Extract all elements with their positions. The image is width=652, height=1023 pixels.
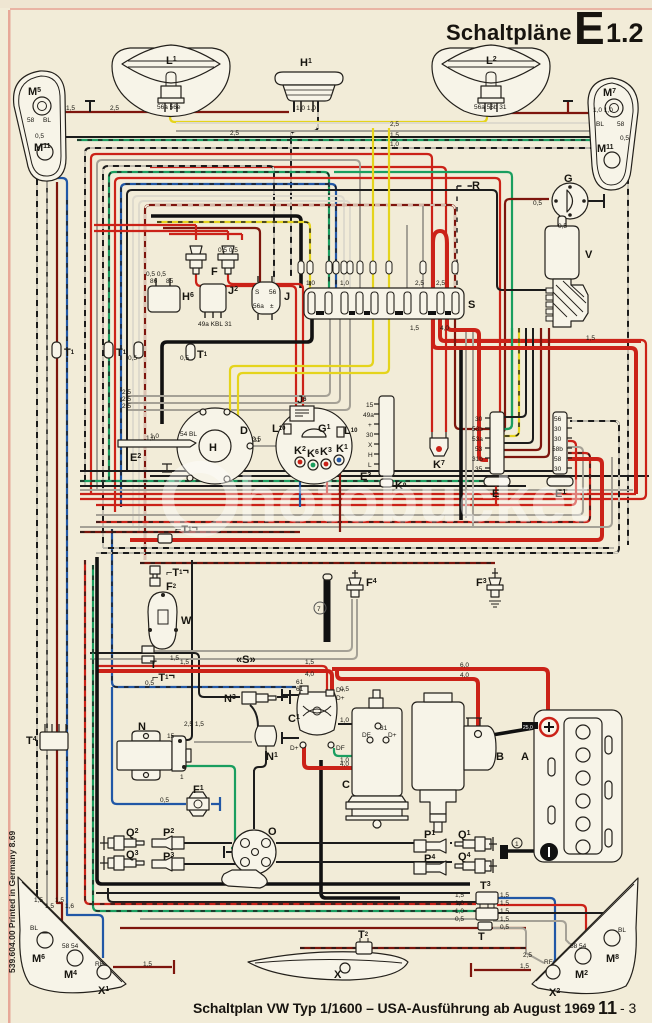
maroon to relay J	[163, 228, 260, 282]
band b14 black-dash U-turn to E1	[96, 421, 619, 553]
right tail grey 2	[493, 928, 544, 963]
svg-text:1,5: 1,5	[34, 897, 43, 904]
engine border thick black	[97, 557, 470, 884]
S-band black to N3	[90, 653, 240, 697]
svg-text:RF: RF	[544, 959, 553, 966]
yellow feeds to fusebox from lamp run	[373, 128, 389, 288]
starter B	[412, 693, 504, 832]
nest wire 4 black-dash	[103, 166, 274, 548]
band blue-dash	[112, 529, 296, 687]
left tail maroon ground	[113, 960, 174, 974]
grey feeds to fusebox	[407, 206, 423, 288]
svg-text:0,5: 0,5	[35, 133, 44, 140]
ignition maroon 2	[504, 328, 549, 457]
inline connector T1 with F2	[150, 565, 189, 593]
svg-text:0,5: 0,5	[500, 924, 509, 931]
svg-text:58 54: 58 54	[62, 943, 79, 950]
antenna	[314, 574, 332, 642]
svg-text:1,5: 1,5	[143, 961, 152, 968]
svg-text:W: W	[181, 615, 192, 627]
svg-text:0,5 0,5: 0,5 0,5	[218, 247, 238, 254]
svg-text:2,5: 2,5	[122, 389, 131, 396]
svg-text:±: ±	[270, 303, 274, 310]
svg-text:2,5: 2,5	[436, 280, 445, 287]
wire: green-dash parking run to M11 right	[77, 140, 601, 150]
ignition yellow-dash	[504, 328, 519, 436]
nest wire 7 blue-dash	[121, 184, 336, 507]
starter red vertical	[476, 684, 480, 730]
bottom bundle green-dash	[93, 565, 476, 911]
svg-text:15: 15	[366, 402, 374, 409]
right tail grey 1	[493, 921, 570, 944]
red wires to F senders	[94, 225, 242, 234]
svg-text:1,5: 1,5	[170, 655, 179, 662]
C1 to C black	[338, 723, 374, 725]
svg-text:1,0: 1,0	[146, 435, 155, 442]
svg-text:B: B	[496, 751, 504, 763]
svg-text:T: T	[478, 931, 485, 943]
svg-text:1,0: 1,0	[340, 280, 349, 287]
band b7 red to right elbow	[80, 340, 646, 499]
condenser N1	[255, 726, 278, 763]
wire: white lamp run	[176, 122, 591, 124]
plug leads left	[184, 843, 420, 864]
left lamp vertical a1 black	[37, 178, 42, 931]
bottom bundle maroon	[120, 927, 526, 929]
svg-text:6,0: 6,0	[460, 662, 469, 669]
svg-text:2,5: 2,5	[230, 130, 239, 137]
band b5 grey	[80, 489, 633, 491]
distributor O	[222, 826, 277, 888]
svg-text:1,5: 1,5	[305, 659, 314, 666]
svg-text:0,5: 0,5	[533, 200, 542, 207]
svg-text:1,5: 1,5	[66, 105, 75, 112]
wire: grey lamp run	[176, 130, 596, 132]
band b4 black	[80, 485, 526, 487]
radio option R dashed	[457, 180, 480, 300]
band b12 red thick U-turn to E1	[130, 459, 602, 540]
S-band red pair to C1	[96, 666, 327, 699]
red hairpin at fuse 9	[433, 231, 447, 288]
svg-text:D+: D+	[290, 745, 299, 752]
connector T below W	[142, 646, 157, 671]
svg-text:T: T	[150, 659, 157, 671]
svg-text:11: 11	[598, 998, 617, 1018]
front lamp M5/M11 left	[14, 71, 66, 181]
svg-text:F: F	[211, 266, 218, 278]
relay J	[252, 276, 290, 320]
svg-text:S: S	[255, 289, 260, 296]
svg-text:+: +	[368, 422, 372, 429]
svg-text:7: 7	[317, 606, 321, 613]
maroon dash under X2	[300, 947, 526, 949]
svg-text:2,5: 2,5	[110, 105, 119, 112]
svg-text:1,0 1,0: 1,0 1,0	[296, 105, 316, 112]
svg-text:1.2: 1.2	[606, 18, 644, 48]
plug connectors P2 P3	[152, 827, 184, 871]
washer bottle V	[545, 216, 593, 279]
band b9 grey U-turn to E1	[96, 447, 583, 515]
maroon G sender wire	[504, 199, 549, 431]
N3 ground	[277, 690, 290, 704]
band b6 red	[80, 493, 636, 495]
plug leads right	[300, 843, 452, 862]
svg-text:1,0: 1,0	[455, 908, 464, 915]
svg-text:1,0: 1,0	[455, 900, 464, 907]
svg-text:0,5: 0,5	[620, 135, 629, 142]
wiper switch E3	[360, 396, 407, 492]
connector T4	[26, 724, 68, 750]
svg-text:61: 61	[296, 679, 304, 686]
svg-text:86: 86	[150, 278, 158, 285]
ignition black 2	[504, 328, 533, 443]
svg-text:4,0: 4,0	[440, 325, 449, 332]
svg-text:BL: BL	[618, 927, 626, 934]
svg-text:1,5: 1,5	[586, 335, 595, 342]
C1 black ground bars	[282, 689, 299, 744]
svg-text:49a: 49a	[363, 412, 374, 419]
svg-text:H: H	[368, 452, 373, 459]
wiper motor under V	[546, 279, 588, 327]
nest wire 10 white2	[139, 201, 350, 532]
svg-text:15: 15	[167, 733, 175, 740]
svg-text:BL: BL	[596, 121, 604, 128]
generator C	[342, 690, 408, 828]
svg-text:0,5: 0,5	[340, 686, 349, 693]
svg-text:DF: DF	[336, 745, 345, 752]
maroon run to M7	[497, 101, 590, 113]
svg-text:1,6: 1,6	[65, 903, 74, 910]
relay J2	[198, 284, 238, 328]
left lamp vertical a3 maroon	[57, 182, 75, 950]
left lamp vertical a4 blue	[50, 150, 103, 958]
red pair from F to indicator lamps	[196, 274, 296, 456]
fuse yellow pair down	[230, 318, 389, 424]
svg-text:1: 1	[515, 841, 519, 848]
left lamp vertical a2 grey	[47, 180, 70, 948]
svg-text:D: D	[240, 425, 248, 437]
svg-text:1,0: 1,0	[306, 280, 315, 287]
fuel sender F4	[347, 570, 377, 597]
svg-text:RF: RF	[95, 961, 104, 968]
connector T3	[476, 880, 498, 943]
svg-text:G: G	[564, 173, 573, 185]
svg-text:2,5: 2,5	[122, 396, 131, 403]
svg-text:E: E	[574, 2, 605, 54]
svg-text:2,5 1,5: 2,5 1,5	[184, 721, 204, 728]
wire: headlamp feed maroon top	[62, 111, 289, 113]
svg-text:2,5: 2,5	[122, 403, 131, 410]
right tail red	[497, 905, 586, 950]
svg-text:58b: 58b	[552, 446, 563, 453]
svg-text:53a: 53a	[472, 436, 483, 443]
svg-text:1,5: 1,5	[500, 916, 509, 923]
svg-text:1,5: 1,5	[500, 908, 509, 915]
svg-text:58 54: 58 54	[570, 943, 587, 950]
extra verticals below fusebox right	[465, 330, 467, 518]
band b2 black	[150, 475, 649, 477]
nest wire 12 black thick	[151, 216, 301, 288]
bottom bundle black 1	[96, 892, 470, 894]
spark plugs Q1 Q4 right	[455, 829, 497, 873]
turn signal switch E	[472, 412, 510, 500]
svg-text:58: 58	[554, 456, 562, 463]
svg-text:BL: BL	[30, 925, 38, 932]
svg-text:53b: 53b	[472, 426, 483, 433]
svg-text:0,5: 0,5	[160, 797, 169, 804]
svg-text:4,0: 4,0	[460, 672, 469, 679]
svg-text:BL: BL	[43, 117, 51, 124]
svg-text:1,5: 1,5	[500, 900, 509, 907]
bottom bundle red-dash	[85, 560, 476, 904]
svg-text:1,0: 1,0	[390, 141, 399, 148]
oil sender N3	[224, 692, 276, 705]
svg-text:54 BL: 54 BL	[180, 431, 197, 438]
svg-text:1,5: 1,5	[455, 892, 464, 899]
svg-text:hotobucket: hotobucket	[238, 463, 588, 536]
svg-text:R: R	[472, 180, 480, 192]
plug connectors P1 P4 right	[414, 829, 446, 875]
svg-text:53: 53	[475, 446, 483, 453]
svg-text:0,5: 0,5	[180, 355, 189, 362]
svg-text:C: C	[342, 779, 350, 791]
svg-text:1,5: 1,5	[390, 132, 399, 139]
svg-text:1,5: 1,5	[180, 659, 189, 666]
svg-text:D+: D+	[388, 732, 397, 739]
svg-text:31: 31	[380, 725, 388, 732]
right tail blue	[497, 898, 555, 966]
svg-text:56: 56	[554, 416, 562, 423]
svg-text:1,0: 1,0	[340, 717, 349, 724]
svg-text:H: H	[209, 442, 217, 454]
oil pressure sender F3	[476, 568, 503, 607]
svg-text:X: X	[368, 442, 373, 449]
svg-text:30: 30	[366, 432, 374, 439]
svg-text:56a 56e: 56a 56e	[157, 104, 181, 111]
red 4.0 to starter	[337, 669, 478, 730]
svg-text:49a KBL 31: 49a KBL 31	[198, 321, 232, 328]
svg-text:⌐T1¬: ⌐T1¬	[166, 565, 189, 579]
fuse red to x636	[433, 318, 636, 494]
connector T2	[356, 929, 372, 954]
C1 to C red loop	[304, 747, 383, 768]
ignition coil N	[117, 721, 204, 781]
fuse red down	[440, 318, 641, 341]
fuse black thick output	[162, 318, 312, 424]
band grey 16	[80, 457, 612, 527]
instrument cluster G1	[272, 394, 358, 484]
S-band grey to F4	[90, 599, 357, 659]
(T1) on red band	[158, 522, 198, 543]
front lamp M7/M11 right	[588, 78, 638, 190]
nest wire 9 white	[133, 196, 344, 527]
svg-text:56a 56b 31: 56a 56b 31	[474, 104, 507, 111]
svg-text:1: 1	[180, 774, 184, 781]
inline connectors T1 row	[52, 342, 195, 360]
ignition black 1	[504, 328, 526, 417]
svg-text:N: N	[138, 721, 146, 733]
band b3 green-dash	[80, 480, 505, 482]
coil HT black	[253, 770, 255, 829]
horn H1	[275, 57, 343, 112]
bottom bundle black 2	[108, 888, 476, 902]
svg-text:56a: 56a	[253, 303, 264, 310]
svg-text:Schaltpläne: Schaltpläne	[446, 20, 572, 45]
svg-text:1,5: 1,5	[500, 892, 509, 899]
maroon-dash to F3	[140, 562, 495, 564]
wire: horn stubs	[294, 101, 318, 112]
svg-text:- 3: - 3	[620, 1000, 637, 1016]
wiper motor W	[148, 592, 192, 649]
svg-text:4,0: 4,0	[340, 761, 349, 768]
K7 indicator	[430, 432, 448, 471]
svg-text:4,0: 4,0	[305, 671, 314, 678]
svg-text:2,5: 2,5	[523, 952, 532, 959]
nest wire 2 red	[91, 154, 432, 494]
band b10 red-dash U-turn to E1	[96, 453, 590, 522]
svg-text:⌐T1¬: ⌐T1¬	[152, 670, 175, 684]
svg-text:1,5: 1,5	[55, 897, 64, 904]
svg-text:0,5 0,5: 0,5 0,5	[146, 271, 166, 278]
svg-text:0,5: 0,5	[455, 916, 464, 923]
svg-text:58: 58	[27, 117, 35, 124]
band b1 black	[80, 470, 560, 472]
fuse box S	[298, 261, 475, 319]
nest wire 3 grey	[97, 160, 360, 490]
svg-text:J: J	[284, 291, 290, 303]
svg-text:DF: DF	[362, 732, 371, 739]
bottom bundle grey	[140, 918, 476, 920]
svg-text:S: S	[468, 299, 475, 311]
svg-text:1,5: 1,5	[410, 325, 419, 332]
left taillight	[18, 877, 126, 997]
svg-text:30: 30	[554, 426, 562, 433]
right tail black	[497, 913, 613, 931]
svg-text:61: 61	[296, 686, 304, 693]
speedometer D with H	[118, 408, 261, 484]
wire size labels sprinkled	[34, 105, 613, 970]
svg-text:2,5: 2,5	[415, 280, 424, 287]
svg-text:2,5: 2,5	[390, 121, 399, 128]
regulator C1	[288, 679, 345, 752]
watermark photobucket	[168, 463, 588, 536]
battery A	[500, 710, 622, 862]
coil to distributor green	[186, 766, 235, 848]
E2 lever	[118, 440, 196, 447]
flasher sender F pair	[186, 246, 238, 278]
svg-text:56: 56	[269, 289, 277, 296]
svg-text:0,5: 0,5	[558, 223, 567, 230]
svg-text:V: V	[585, 249, 593, 261]
svg-text:Schaltplan VW Typ 1/1600 – USA: Schaltplan VW Typ 1/1600 – USA-Ausführun…	[193, 1000, 595, 1016]
blue stub M11 right	[609, 150, 611, 175]
svg-text:30: 30	[554, 436, 562, 443]
D to G1 grey	[252, 445, 277, 447]
band b8 red U-turn to E1	[96, 441, 576, 505]
band b13 black-dash	[103, 547, 614, 549]
svg-text:85: 85	[166, 278, 174, 285]
svg-text:O: O	[268, 826, 277, 838]
svg-text:D+: D+	[336, 695, 345, 702]
maroon-dash band	[80, 531, 300, 533]
right tail maroon ground	[471, 963, 531, 977]
red 6.0 to battery	[332, 669, 548, 714]
headlamp L1	[112, 45, 230, 117]
nest wire 13 yellow-dash	[157, 222, 310, 288]
ignition maroon 1	[504, 328, 541, 450]
ground strap	[506, 849, 542, 853]
G sender ground	[587, 194, 604, 208]
C1 to C green	[334, 748, 369, 756]
right taillight	[532, 878, 638, 999]
nest wire 8 black	[127, 190, 550, 471]
ignition green	[504, 328, 512, 429]
fuel gauge sender G	[533, 173, 588, 219]
fuse maroon to E3	[455, 318, 494, 429]
fuse F1	[187, 784, 209, 816]
headlamp L2	[432, 45, 550, 117]
nest wire 6 red	[115, 178, 500, 512]
svg-text:A: A	[521, 751, 529, 763]
light switch E1	[547, 412, 573, 500]
K lamp drops	[299, 470, 301, 507]
svg-text:539.604.00 Printed in Germany: 539.604.00 Printed in Germany 8.69	[7, 831, 17, 973]
fuse grey triple	[128, 318, 350, 410]
svg-text:1,5: 1,5	[520, 963, 529, 970]
battery cable black	[492, 727, 540, 735]
relay H6	[146, 271, 194, 312]
svg-text:25,0: 25,0	[523, 725, 533, 731]
svg-text:31b: 31b	[472, 456, 483, 463]
engine border vertical 2	[321, 760, 400, 898]
license plate light	[248, 952, 408, 981]
blue to F1	[112, 687, 220, 811]
nest wire 1 black-dash	[85, 148, 628, 545]
svg-text:58: 58	[617, 121, 625, 128]
svg-text:30: 30	[475, 416, 483, 423]
svg-text:0,5: 0,5	[128, 355, 137, 362]
nest wire 5 green-dash	[109, 172, 329, 481]
svg-text:1,5: 1,5	[45, 903, 54, 910]
distributor ground	[224, 846, 233, 858]
svg-text:1,0 1,0: 1,0 1,0	[593, 107, 613, 114]
nest wire 11 maroon-dash to fuse	[145, 205, 455, 560]
page edge tint line	[8, 10, 11, 1023]
svg-text:0,5: 0,5	[252, 436, 261, 443]
spark plugs Q2 Q3	[100, 827, 144, 870]
svg-text:0,5: 0,5	[145, 680, 154, 687]
svg-text:«S»: «S»	[236, 654, 256, 666]
E switch foot drop	[495, 479, 497, 505]
wire: yellow lamp crossover	[170, 106, 487, 122]
svg-text:X: X	[334, 969, 342, 981]
